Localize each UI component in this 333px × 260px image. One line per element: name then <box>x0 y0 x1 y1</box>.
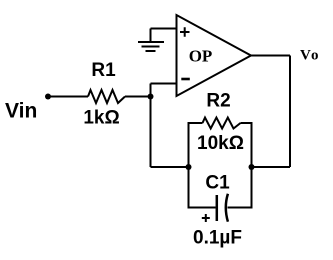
node A junction <box>148 94 154 100</box>
svg-text:Vin: Vin <box>5 100 37 123</box>
svg-text:OP: OP <box>189 47 213 66</box>
wire op-amp output <box>251 55 290 57</box>
wire R2 to node C <box>241 123 252 167</box>
node B junction <box>186 164 192 170</box>
svg-text:Vo: Vo <box>300 48 320 64</box>
wire node B up to R2 branch <box>189 123 203 167</box>
wire to inverting input <box>151 83 177 85</box>
pin + non-inverting input marker <box>180 27 190 37</box>
resistor R1 <box>88 90 125 103</box>
label + polarity of C1 <box>202 214 210 222</box>
node Vin input terminal <box>45 94 51 100</box>
wire Vin to R1 <box>48 96 88 98</box>
wire output to node C <box>252 166 291 168</box>
svg-text:R1: R1 <box>91 60 116 81</box>
wire node A vertical to inverting input and down to feedback <box>150 84 152 168</box>
wire C1 to node C <box>228 167 252 208</box>
svg-text:0.1µF: 0.1µF <box>193 228 242 249</box>
svg-text:C1: C1 <box>205 173 230 194</box>
node C junction <box>249 164 255 170</box>
wire to non-inverting input <box>151 28 177 30</box>
svg-text:1kΩ: 1kΩ <box>83 108 119 129</box>
svg-text:R2: R2 <box>206 91 230 112</box>
op-amp U1 <box>177 15 252 96</box>
ground <box>138 29 164 52</box>
pin - inverting input marker <box>181 78 190 81</box>
capacitor C1 <box>217 194 228 222</box>
wire node A to node B <box>151 166 189 168</box>
wire R1 to node A <box>125 96 151 98</box>
resistor R2 <box>203 118 241 129</box>
svg-text:10kΩ: 10kΩ <box>197 133 244 154</box>
wire node B down to C1 branch <box>189 167 216 208</box>
wire output down <box>289 56 291 168</box>
